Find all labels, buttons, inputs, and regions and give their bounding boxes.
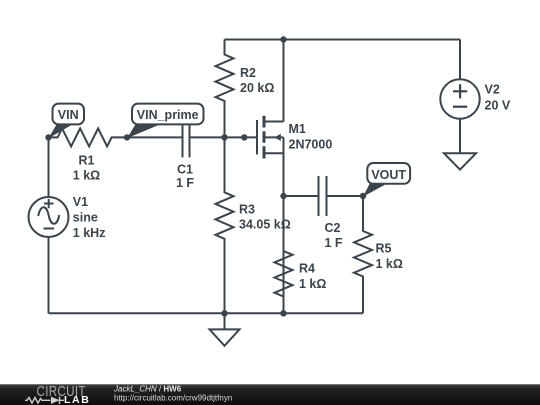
svg-text:JackL_CHN / HW6: JackL_CHN / HW6: [113, 385, 182, 394]
V1 minus sign: [44, 228, 55, 230]
V1 plus sign: [44, 199, 54, 208]
junction dot VIN_prime node: [124, 134, 130, 140]
svg-text:1 kΩ: 1 kΩ: [73, 169, 100, 183]
V1 sine symbol: [38, 207, 59, 223]
svg-text:C1: C1: [177, 163, 193, 177]
wire bottom rail: [49, 312, 364, 314]
junction dot VIN node: [45, 134, 51, 140]
svg-text:LAB: LAB: [64, 394, 90, 405]
svg-text:1 kΩ: 1 kΩ: [299, 277, 326, 291]
junction dot VOUT node: [360, 193, 366, 199]
svg-text:R3: R3: [239, 203, 255, 217]
footer bar: [0, 384, 540, 405]
junction dot gate wire: [241, 134, 247, 140]
svg-text:V1: V1: [73, 195, 88, 209]
svg-text:1 F: 1 F: [176, 176, 194, 190]
junction dot R2/R3 gate node: [221, 134, 227, 140]
capacitor C2 wires: [284, 195, 364, 197]
resistor R5: [354, 196, 372, 313]
resistor R2: [216, 40, 234, 138]
wire source vertical: [283, 137, 285, 313]
svg-text:VOUT: VOUT: [371, 168, 406, 182]
svg-text:sine: sine: [73, 211, 98, 225]
capacitor C2 plates: [319, 176, 327, 216]
transistor M1 channel dashes: [263, 116, 266, 159]
ground (V2): [444, 153, 476, 169]
V2 minus sign: [453, 106, 467, 108]
junction dot source/C2 node: [280, 193, 286, 199]
node label VOUT: [367, 163, 410, 184]
transistor M1 body arrow line: [266, 136, 284, 138]
svg-text:R4: R4: [299, 262, 315, 276]
transistor M1 gate line: [256, 120, 258, 155]
transistor M1 drain lead: [266, 121, 284, 123]
svg-text:http://circuitlab.com/crw99dtj: http://circuitlab.com/crw99dtjtfnyn: [114, 394, 232, 403]
svg-text:VIN: VIN: [58, 108, 79, 122]
svg-text:2N7000: 2N7000: [289, 138, 333, 152]
svg-text:1 kΩ: 1 kΩ: [376, 257, 403, 271]
VIN label tail: [49, 124, 75, 139]
V2 plus sign: [453, 84, 467, 98]
svg-text:R1: R1: [79, 154, 95, 168]
svg-text:C2: C2: [325, 221, 341, 235]
junction dot R4 bottom: [280, 310, 286, 316]
resistor R3: [216, 137, 234, 313]
wire top rail: [225, 39, 461, 41]
transistor M1 source lead: [266, 152, 284, 154]
svg-text:34.05 kΩ: 34.05 kΩ: [239, 218, 291, 232]
svg-text:R2: R2: [240, 66, 256, 80]
VOUT label tail: [363, 183, 388, 197]
voltage source V1 circle: [29, 197, 69, 237]
node label VIN_prime: [132, 104, 204, 125]
svg-text:R5: R5: [376, 242, 392, 256]
wire V2 top lead: [459, 40, 461, 80]
ground (bottom): [210, 313, 240, 346]
wire V2 bottom lead: [459, 119, 461, 154]
junction dot top rail/drain: [280, 36, 286, 42]
node label VIN: [53, 104, 85, 125]
M1 arrow head: [275, 134, 281, 141]
footer logo resistor-diode glyph: [25, 397, 64, 405]
wire drain vertical: [283, 40, 285, 122]
resistor R4: [275, 196, 293, 313]
capacitor C1: [183, 117, 190, 157]
svg-text:1 F: 1 F: [325, 236, 343, 250]
svg-text:20 V: 20 V: [485, 99, 511, 113]
VIN_prime label tail: [127, 124, 162, 139]
voltage source V2 circle: [440, 79, 479, 118]
svg-text:V2: V2: [485, 83, 500, 97]
svg-text:M1: M1: [289, 122, 306, 136]
wire gate rail right of C1: [190, 136, 258, 138]
junction dot ground node: [221, 310, 227, 316]
voltage source V1 leads: [48, 137, 50, 313]
wire gate rail left + resistor R1: [49, 128, 183, 146]
svg-text:1 kHz: 1 kHz: [73, 226, 106, 240]
svg-text:VIN_prime: VIN_prime: [137, 108, 199, 122]
svg-text:20 kΩ: 20 kΩ: [240, 81, 274, 95]
